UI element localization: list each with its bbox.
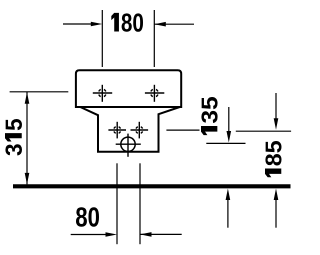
dim 315 reference line (top holes level) [10, 91, 69, 93]
fixing hole crosshair left (stem) [108, 122, 126, 139]
dim 135/185 reference line right segment [236, 130, 291, 132]
dim 80 extension line right [139, 163, 141, 244]
dim 315 vertical line [26, 92, 28, 184]
dim 180 right arrowhead [154, 22, 166, 27]
mounting hole crosshair right (top) [145, 85, 164, 102]
dim 180 left arrowhead [91, 22, 103, 27]
dim 180 left arrow tail [63, 23, 92, 25]
dim 135 tick line [206, 142, 245, 144]
dim 80 right arrow tail [140, 233, 182, 235]
dim 180 extension line right [153, 10, 155, 67]
dim 80 left arrowhead [106, 232, 118, 237]
dim 80 left arrow tail [71, 234, 106, 236]
dim 315 down arrowhead [25, 173, 30, 185]
dim label 135 [201, 97, 218, 135]
bidet lower body (stem) outline [80, 107, 179, 152]
bidet upper body outline [76, 70, 181, 107]
dim label 315 [5, 119, 22, 156]
dim 185 down arrowhead [274, 118, 279, 130]
dim 135 reference line from stem holes [166, 129, 199, 131]
drain circle [116, 134, 141, 157]
dim 185 below-floor vertical with up arrowhead [275, 199, 277, 228]
fixing hole crosshair right (stem) [131, 122, 149, 139]
dim 80 right arrowhead [140, 232, 152, 237]
dim 180 right arrow tail [154, 23, 194, 25]
mounting hole crosshair left (top) [93, 85, 112, 102]
dim 135 down arrowhead [227, 131, 232, 143]
dim 315 up arrowhead [25, 92, 30, 104]
dim 135 below-floor vertical with up arrowhead [227, 199, 229, 228]
dim label 80 [76, 207, 99, 227]
dim 135 vertical line [228, 107, 230, 132]
dim 185 vertical line [275, 93, 277, 120]
dim label 185 [265, 141, 282, 177]
dim label 180 [111, 13, 143, 32]
floor line [13, 184, 291, 188]
dim 80 extension line left [116, 163, 118, 244]
dim 180 extension line left [101, 10, 103, 67]
